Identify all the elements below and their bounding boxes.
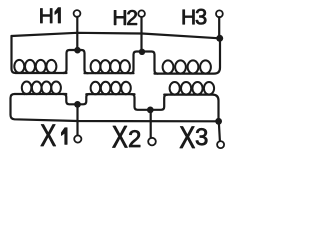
node H3 junction dot — [216, 35, 223, 42]
inductor secondary winding 3 — [170, 82, 215, 95]
node H1 junction dot — [74, 47, 81, 54]
wire primary baseline seg 3 and right edge — [155, 38, 221, 73]
terminal X3 — [217, 141, 224, 148]
wire H2 lead — [140, 17, 142, 52]
wire secondary baseline seg 2 — [86, 93, 134, 95]
inductor primary winding 1 — [14, 60, 56, 73]
label X1 — [41, 125, 56, 146]
label X2 — [112, 126, 127, 147]
terminal H1 — [74, 10, 81, 17]
node H2 junction dot — [139, 49, 145, 55]
wire top bus H1-H3 — [12, 33, 220, 39]
label H3 — [183, 10, 195, 24]
wire saddle node X1 — [63, 94, 89, 104]
label H2 — [114, 10, 126, 24]
node X2 junction dot — [147, 107, 154, 114]
wire primary baseline seg 2 — [85, 72, 134, 74]
terminal H2 — [138, 10, 145, 17]
label H1 — [40, 9, 52, 23]
wire saddle node X2 — [131, 94, 167, 110]
node X1 junction dot — [74, 101, 81, 108]
terminal H3 — [216, 10, 223, 17]
wire secondary baseline under winding 1 — [24, 93, 66, 95]
wire saddle node H1 — [63, 50, 87, 73]
wire left edge primary — [12, 36, 67, 73]
node X3 junction dot — [215, 118, 222, 125]
wire H3 lead — [218, 17, 220, 38]
terminal X2 — [148, 138, 156, 146]
inductor secondary winding 1 — [22, 82, 61, 95]
wire secondary baseline seg 1 left edge and bottom bus X — [11, 94, 219, 121]
wire X1 lead — [76, 104, 78, 135]
label X3 — [180, 127, 195, 148]
wire H1 lead — [76, 17, 78, 50]
inductor primary winding 2 — [91, 60, 130, 73]
wire secondary baseline seg 3 and right edge down — [164, 95, 218, 122]
wire X3 lead — [219, 121, 220, 141]
inductor primary winding 3 — [163, 60, 211, 73]
wire X2 lead — [150, 110, 152, 138]
wire saddle node H2 — [130, 52, 157, 74]
inductor secondary winding 2 — [91, 82, 131, 94]
terminal X1 — [74, 135, 81, 142]
